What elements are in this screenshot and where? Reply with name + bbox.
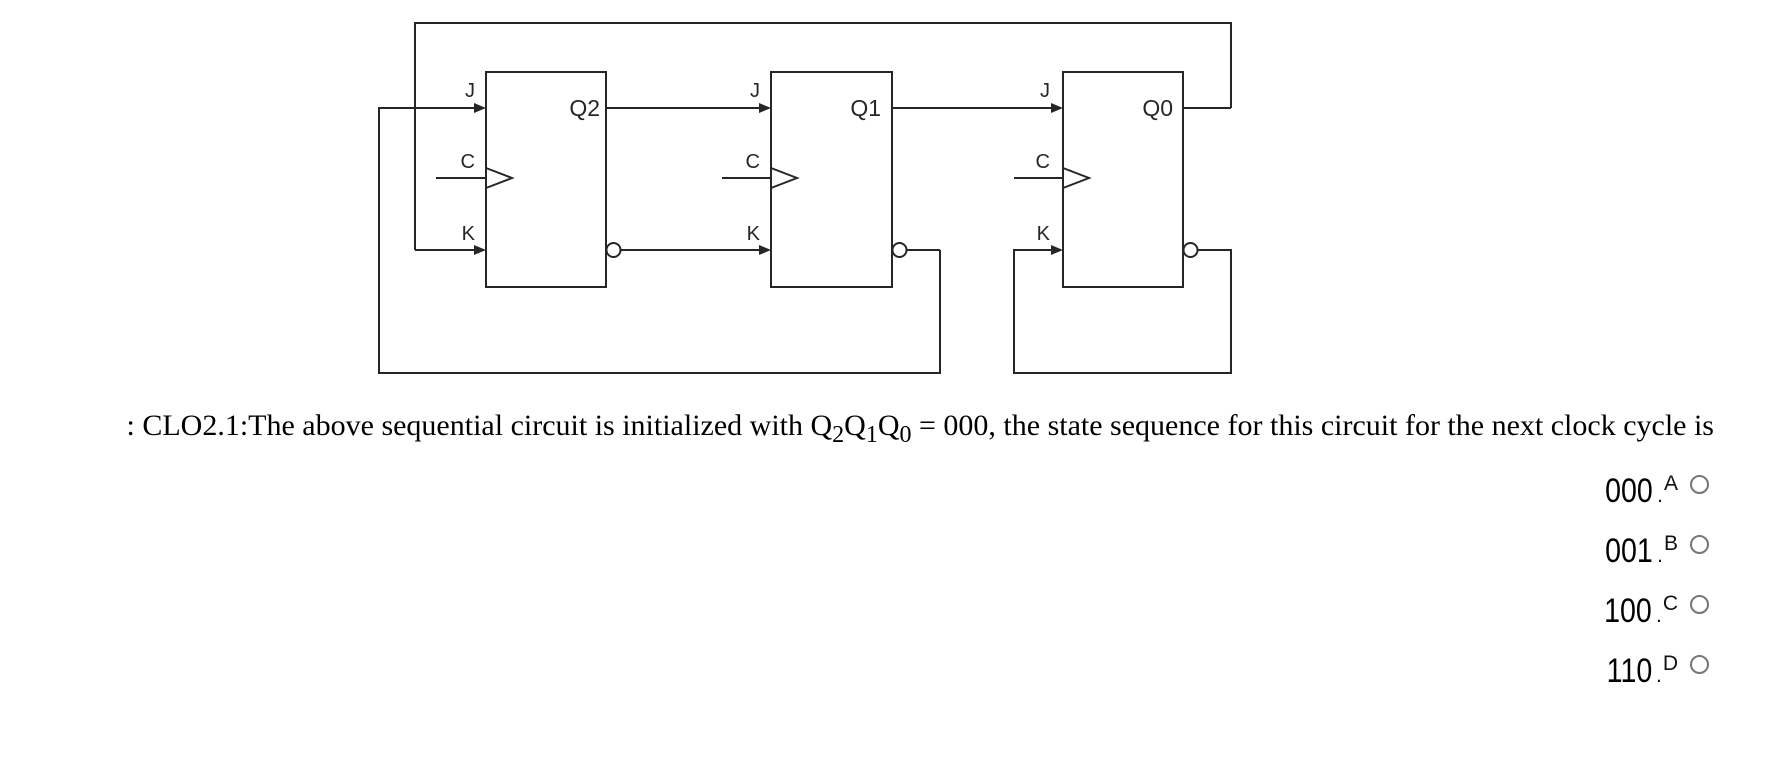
svg-text:C: C <box>461 151 475 173</box>
wire Q0 output to top feedback <box>1183 107 1231 109</box>
wire clock stub C0 <box>1014 177 1063 179</box>
wire K input of Q2 <box>415 249 477 251</box>
wire Q1 complement to feedback vertical <box>907 249 941 251</box>
svg-text:K: K <box>462 223 476 245</box>
option B <box>1596 532 1709 572</box>
clock triangle Q0 <box>1063 168 1089 188</box>
wire top feedback (Q0 output to K of Q2) <box>415 23 1231 250</box>
wire Q2 complement to K of Q1 <box>621 249 763 251</box>
arrowhead J0 <box>1051 103 1063 113</box>
clock triangle Q2 <box>486 168 512 188</box>
junction arrowhead J2 <box>474 103 486 113</box>
flip-flop Q2 box <box>486 72 606 287</box>
wire Q2 output to J of Q1 <box>606 107 762 109</box>
question text <box>0 409 1714 443</box>
svg-text:Q0: Q0 <box>1142 95 1173 121</box>
svg-text:K: K <box>747 223 761 245</box>
junction arrowhead K2 <box>474 245 486 255</box>
svg-text:C: C <box>746 151 760 173</box>
svg-text:Q2: Q2 <box>569 95 600 121</box>
svg-text:K: K <box>1037 223 1051 245</box>
clock triangle Q1 <box>771 168 797 188</box>
wire bottom feedback (Q1 complement to J of Q2) <box>379 108 940 373</box>
bubble Q0 complement <box>1184 243 1198 257</box>
wire Q1 output to J of Q0 <box>892 107 1054 109</box>
flip-flop Q1 box <box>771 72 892 287</box>
flip-flop Q0 box <box>1063 72 1183 287</box>
arrowhead J1 <box>759 103 771 113</box>
option A <box>1596 472 1709 512</box>
option D <box>1598 652 1709 692</box>
option C <box>1595 592 1709 632</box>
arrowhead K0 <box>1051 245 1063 255</box>
bubble Q2 complement <box>607 243 621 257</box>
svg-text:J: J <box>1040 80 1050 102</box>
wire clock stub C2 <box>436 177 486 179</box>
wire Q0 complement feedback loop to K of Q0 <box>1014 250 1231 373</box>
arrowhead K1 <box>759 245 771 255</box>
wire clock stub C1 <box>722 177 771 179</box>
svg-text:J: J <box>465 80 475 102</box>
svg-text:Q1: Q1 <box>850 95 881 121</box>
bubble Q1 complement <box>893 243 907 257</box>
svg-text:J: J <box>750 80 760 102</box>
svg-text:C: C <box>1036 151 1050 173</box>
